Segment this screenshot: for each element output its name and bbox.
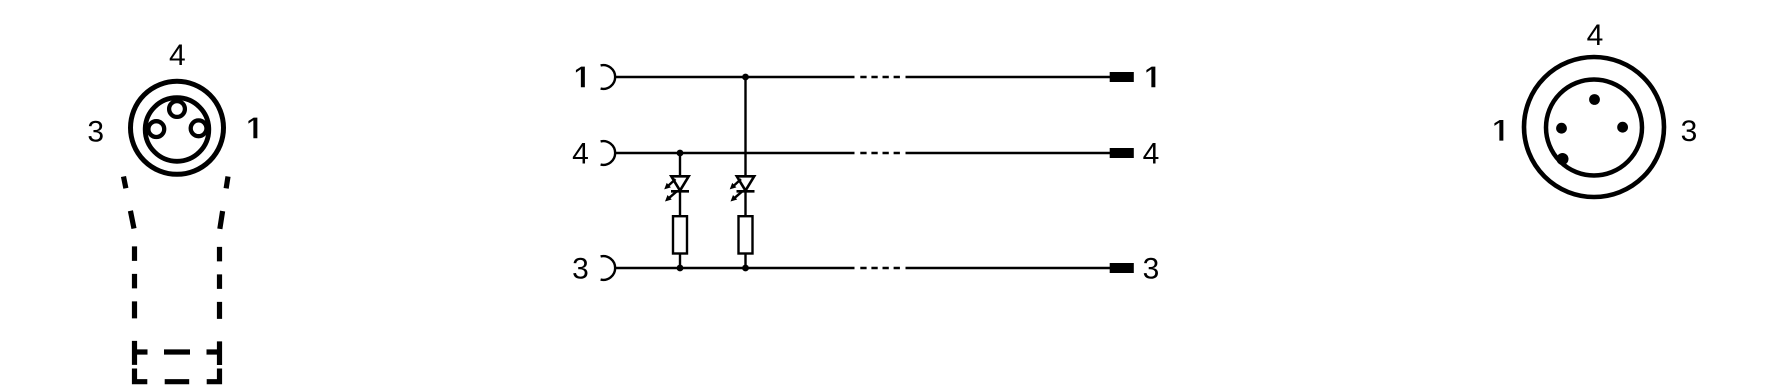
LED D2 light arrow 1 [730, 179, 741, 189]
branch 2 vertical wire from row 1 to LED D2 (crosses row 4) [744, 77, 746, 176]
J2 pin 3 (right) [1617, 122, 1628, 133]
svg-text:3: 3 [1143, 252, 1160, 285]
svg-text:4: 4 [1587, 19, 1604, 52]
row 3 terminal (black rectangle) [1110, 263, 1134, 273]
row 1 socket arc [601, 65, 616, 89]
row 4 wire solid segment (left) [615, 152, 855, 154]
row 3 wire dashed break [860, 267, 900, 269]
J1 pin 3 (left socket) [148, 121, 164, 137]
junction dot row 3 / branch 1 [677, 265, 684, 272]
J2 pin 4 (top) [1589, 94, 1600, 105]
J1 label pin 1 [248, 118, 257, 139]
J1 connector body dashed outline right side [220, 177, 229, 366]
svg-text:4: 4 [572, 137, 589, 170]
svg-text:3: 3 [572, 252, 589, 285]
LED D2 triangle [737, 176, 754, 190]
row 1 terminal (black rectangle) [1110, 72, 1134, 82]
junction dot row 3 / branch 2 [742, 265, 749, 272]
J1 body dashed dividing line (nut top edge) [135, 349, 220, 354]
LED D1 cathode bar [671, 190, 689, 193]
J1 body dashed bottom outline [135, 369, 220, 382]
branch 2 wire resistor to row 3 [744, 254, 746, 269]
J1 pin 1 (right socket) [191, 120, 207, 136]
row 4 terminal (black rectangle) [1110, 148, 1134, 158]
branch 1 wire resistor to row 3 [679, 254, 681, 269]
row 1 wire dashed break [860, 76, 900, 78]
row 1 pin label right [1146, 67, 1155, 88]
resistor R1 [673, 216, 687, 253]
J2 label pin 1 [1494, 120, 1503, 141]
LED D1 triangle [671, 176, 688, 190]
branch 2 wire LED to resistor R2 [744, 191, 746, 216]
row 3 socket arc [601, 256, 616, 280]
resistor R2 [739, 216, 753, 253]
junction dot row 4 / branch 1 [677, 150, 684, 157]
svg-text:4: 4 [1143, 137, 1160, 170]
J1 connector body dashed outline left side [124, 177, 135, 366]
svg-text:3: 3 [1681, 115, 1698, 148]
junction dot row 1 / branch 2 [742, 74, 749, 81]
branch 1 wire LED to resistor R1 [679, 191, 681, 216]
J2 pin 1 (left) [1556, 123, 1567, 134]
row 3 wire solid segment (left) [615, 267, 855, 269]
LED D1 light arrow 2 [665, 191, 677, 201]
LED D1 light arrow 1 [664, 179, 675, 189]
LED D2 light arrow 2 [731, 191, 743, 201]
row 1 wire solid segment (left) [615, 76, 855, 78]
LED D2 cathode bar [737, 190, 755, 193]
svg-text:3: 3 [87, 115, 104, 148]
J2 keying mark dot [1557, 153, 1569, 165]
connector J1 (M8 female, face view) outer circle [131, 81, 224, 174]
row 3 wire solid segment (right) [906, 267, 1111, 269]
svg-text:4: 4 [169, 39, 186, 72]
connector J2 (M8 male, face view) outer circle [1524, 57, 1664, 197]
row 4 wire solid segment (right) [906, 152, 1111, 154]
row 1 wire solid segment (right) [906, 76, 1111, 78]
J1 pin 4 (top socket) [169, 101, 185, 117]
branch 1 vertical wire from row 4 to LED D1 [679, 153, 681, 176]
schematic row 1 pin label left [576, 67, 585, 88]
connector J2 inner circle [1546, 80, 1642, 176]
row 4 wire dashed break [860, 152, 900, 154]
connector J1 inner circle [145, 98, 209, 162]
row 4 socket arc [601, 141, 616, 165]
